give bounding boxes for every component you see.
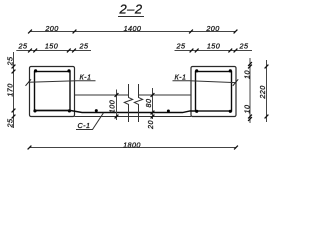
svg-text:10: 10: [242, 105, 251, 114]
svg-text:150: 150: [45, 42, 58, 51]
svg-text:10: 10: [242, 70, 251, 79]
svg-text:К-1: К-1: [80, 73, 92, 82]
svg-text:150: 150: [207, 42, 220, 51]
svg-text:25: 25: [79, 42, 89, 51]
svg-text:2–2: 2–2: [118, 1, 142, 16]
svg-text:80: 80: [144, 99, 153, 108]
svg-text:25: 25: [6, 56, 15, 66]
svg-text:25: 25: [18, 42, 28, 51]
svg-text:25: 25: [6, 118, 15, 128]
svg-text:25: 25: [239, 42, 249, 51]
svg-text:1800: 1800: [123, 140, 141, 149]
svg-text:20: 20: [146, 120, 155, 130]
svg-text:220: 220: [258, 85, 267, 99]
svg-text:200: 200: [44, 24, 58, 33]
svg-text:25: 25: [176, 42, 186, 51]
svg-text:200: 200: [205, 24, 219, 33]
svg-text:С-1: С-1: [78, 121, 91, 130]
svg-text:100: 100: [107, 100, 116, 113]
svg-text:170: 170: [6, 83, 15, 96]
svg-text:К-1: К-1: [175, 73, 187, 82]
svg-text:1400: 1400: [124, 24, 142, 33]
